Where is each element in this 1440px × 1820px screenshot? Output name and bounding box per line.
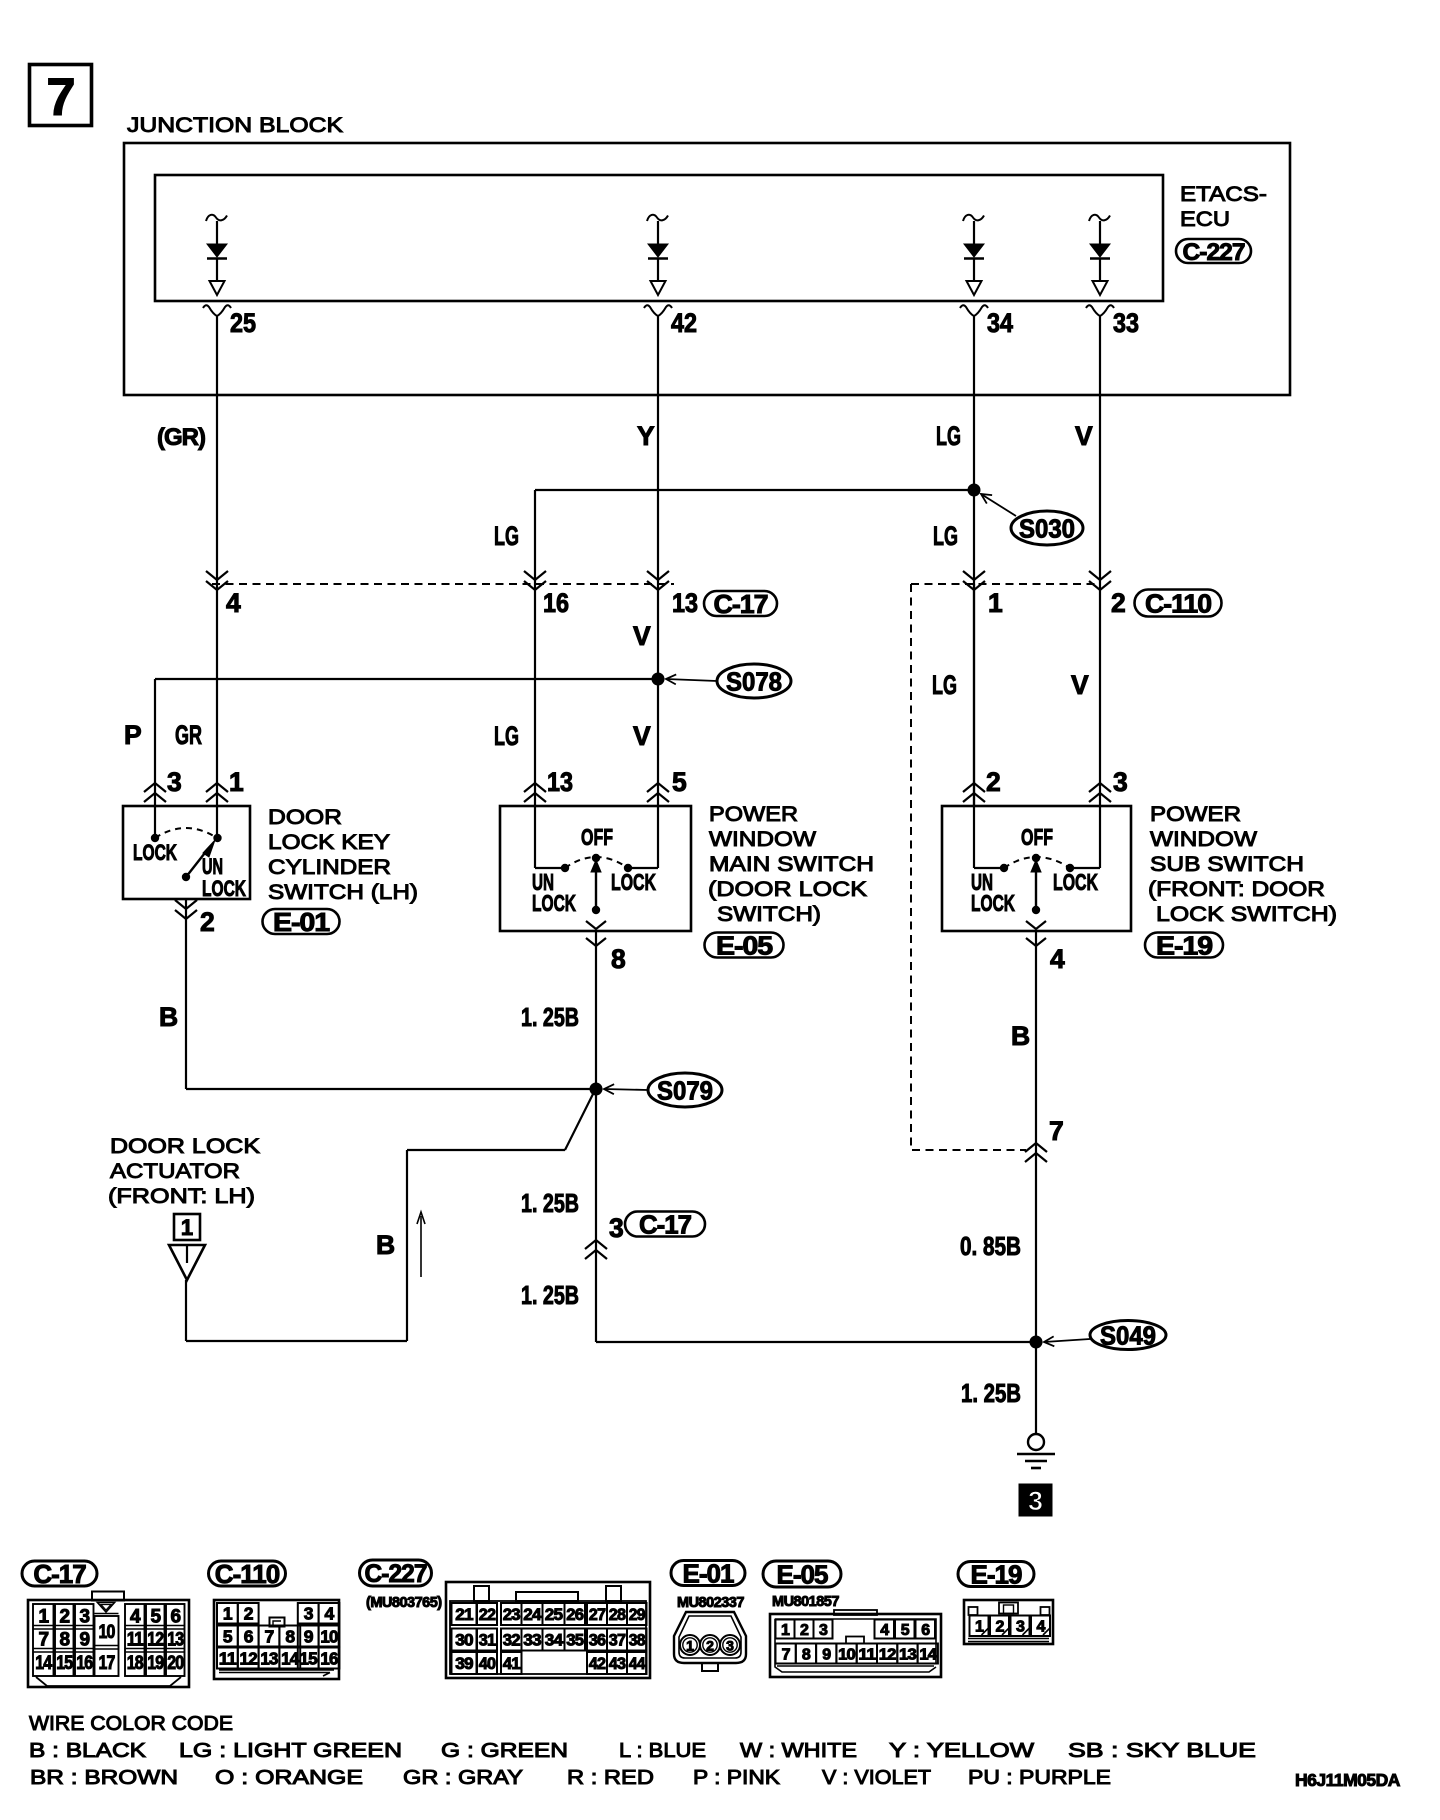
C-17 pin grid (33, 1604, 185, 1676)
svg-text:LOCK: LOCK (1053, 869, 1098, 895)
svg-text:10: 10 (838, 1646, 856, 1663)
connector view E-01 (674, 1612, 746, 1671)
pin 33 ETACS-ECU (1086, 305, 1139, 338)
pin 8 switch E-05 (586, 921, 625, 974)
svg-text:21: 21 (455, 1605, 473, 1624)
svg-text:9: 9 (822, 1646, 831, 1663)
wire GR pin25 to switch E-01 pin1 (216, 316, 218, 806)
wire color code heading (29, 1712, 233, 1735)
svg-text:H6J11M05DA: H6J11M05DA (1295, 1770, 1401, 1790)
wire label 1.25B mid (521, 1190, 579, 1218)
connector label C-17 lower (625, 1209, 705, 1239)
key cyl label LOCK (133, 840, 177, 865)
connector label C-227 (1176, 239, 1251, 266)
sub sw contact UNLOCK (1000, 864, 1008, 872)
svg-text:LOCK SWITCH): LOCK SWITCH) (1156, 902, 1337, 926)
connector view label C-227 (360, 1560, 432, 1588)
ETACS-ECU box (155, 175, 1163, 301)
svg-text:1: 1 (38, 1607, 49, 1628)
connector view label E-01 (671, 1558, 745, 1588)
C-110 pin grid (217, 1603, 339, 1669)
svg-text:7: 7 (1049, 1116, 1063, 1146)
wire label LG above E-05 (494, 721, 519, 751)
svg-text:B: B (159, 1002, 177, 1032)
svg-text:GR : GRAY: GR : GRAY (403, 1766, 523, 1789)
wire label LG left branch (494, 521, 519, 551)
svg-text:34: 34 (987, 308, 1013, 338)
svg-text:33: 33 (523, 1631, 541, 1650)
svg-text:4: 4 (325, 1604, 335, 1624)
svg-text:WINDOW: WINDOW (1150, 827, 1258, 851)
node S030 junction (535, 484, 981, 497)
svg-text:3: 3 (819, 1622, 828, 1639)
wire label B actuator (376, 1230, 394, 1260)
svg-text:4: 4 (226, 588, 241, 618)
power window main switch box (500, 806, 691, 931)
svg-text:V: V (633, 621, 651, 651)
pin 5 switch (647, 767, 687, 802)
svg-text:2: 2 (986, 767, 1001, 797)
pin 2 switch E-01 (175, 900, 214, 937)
svg-text:SUB SWITCH: SUB SWITCH (1150, 852, 1304, 876)
svg-text:LOCK: LOCK (611, 869, 656, 895)
diode D1 (206, 215, 227, 295)
actuator name DOOR LOCK ACTUATOR (FRONT: LH) (108, 1134, 261, 1208)
main sw contact LOCK (624, 864, 632, 872)
svg-text:LG: LG (494, 721, 519, 751)
sub sw label LOCK (1053, 869, 1098, 895)
wire label 0.85B (960, 1233, 1021, 1261)
svg-text:O : ORANGE: O : ORANGE (215, 1766, 363, 1789)
wire label V above S078 (633, 621, 651, 651)
harness boundary dashed line C-110 (911, 583, 1100, 585)
svg-text:7: 7 (265, 1626, 274, 1646)
svg-text:5: 5 (901, 1622, 910, 1639)
connector view label E-19 (958, 1559, 1034, 1589)
svg-text:8: 8 (285, 1626, 295, 1646)
pin 13 switch (524, 767, 573, 802)
svg-text:GR: GR (175, 720, 202, 750)
svg-text:32: 32 (503, 1631, 520, 1650)
sub sw wiper arrow (1031, 860, 1041, 914)
svg-text:LG: LG (932, 670, 957, 700)
sub sw label UN LOCK (971, 869, 1015, 916)
svg-text:B: B (1011, 1021, 1029, 1051)
main sw contact OFF (592, 854, 600, 862)
svg-text:C-227: C-227 (1183, 239, 1245, 266)
sub sw contact OFF (1032, 854, 1040, 862)
svg-text:C-227: C-227 (365, 1560, 427, 1588)
connector view label E-05 (763, 1559, 841, 1589)
svg-text:C-17: C-17 (714, 589, 769, 619)
connector view E-19 (964, 1600, 1053, 1644)
door lock actuator symbol (169, 1245, 205, 1280)
splice label S049 (1044, 1320, 1166, 1350)
connector label C-110 inline (1135, 588, 1222, 618)
svg-text:8: 8 (611, 944, 625, 974)
svg-text:(FRONT: DOOR: (FRONT: DOOR (1148, 877, 1325, 901)
svg-text:ETACS-: ETACS- (1180, 182, 1267, 206)
svg-text:14: 14 (281, 1648, 299, 1668)
svg-text:PU : PURPLE: PU : PURPLE (968, 1766, 1111, 1789)
svg-text:S049: S049 (1100, 1320, 1156, 1350)
wire LG C-110 to E-19 pin2 (973, 584, 975, 806)
main sw internal wire left (535, 807, 565, 868)
svg-text:36: 36 (589, 1631, 606, 1650)
splice label S079 (604, 1073, 722, 1107)
svg-text:12: 12 (147, 1630, 163, 1651)
svg-text:5: 5 (672, 767, 687, 797)
svg-text:33: 33 (1113, 308, 1139, 338)
svg-text:E-19: E-19 (1156, 930, 1213, 960)
svg-text:LOCK: LOCK (532, 890, 576, 916)
svg-text:34: 34 (545, 1631, 564, 1650)
wire V pin33 (1099, 316, 1101, 806)
svg-text:L : BLUE: L : BLUE (619, 1739, 706, 1762)
E-05 part number MU801857 (772, 1594, 839, 1610)
sub sw internal wire right (1070, 807, 1100, 868)
wire B E-19 pin4 down (1035, 931, 1037, 1342)
svg-text:1. 25B: 1. 25B (521, 1190, 579, 1218)
pin 13 connector C-17 (647, 571, 698, 618)
svg-text:13: 13 (167, 1630, 183, 1651)
wire label GR (175, 720, 202, 750)
svg-text:WIRE COLOR CODE: WIRE COLOR CODE (29, 1712, 233, 1735)
svg-text:6: 6 (921, 1622, 930, 1639)
svg-text:MAIN SWITCH: MAIN SWITCH (709, 852, 874, 876)
svg-text:C-17: C-17 (639, 1209, 692, 1239)
door boundary dashed outline (911, 584, 1026, 1150)
sub sw label OFF (1021, 824, 1053, 850)
svg-text:2: 2 (1111, 588, 1125, 618)
wire B E-01 pin2 down (185, 899, 187, 1089)
pin 4 switch E-19 (1026, 921, 1065, 974)
svg-text:40: 40 (479, 1654, 496, 1673)
wire Y pin42 (657, 316, 659, 679)
wire V S078 to switch E-05 pin5 (657, 679, 659, 806)
wire 1.25B E-05 pin8 to S079 (595, 931, 597, 1089)
svg-text:1: 1 (181, 1215, 193, 1240)
wire label LG above E-19 (932, 670, 957, 700)
key cyl contact UNLOCK (213, 834, 221, 842)
svg-text:14: 14 (919, 1646, 937, 1663)
svg-text:V: V (633, 721, 651, 751)
ETACS-ECU label (1180, 182, 1267, 231)
svg-text:B: B (376, 1230, 394, 1260)
main sw label LOCK (611, 869, 656, 895)
svg-text:4: 4 (1050, 944, 1065, 974)
connector label C-17 inline (704, 589, 777, 619)
svg-text:3: 3 (1028, 1486, 1043, 1516)
svg-text:1: 1 (781, 1622, 790, 1639)
diode D3 (963, 215, 984, 295)
pin 7 door boundary (1025, 1116, 1063, 1162)
svg-text:11: 11 (127, 1630, 144, 1651)
svg-text:3: 3 (79, 1607, 89, 1628)
svg-text:17: 17 (99, 1653, 115, 1674)
svg-text:LOCK KEY: LOCK KEY (268, 830, 390, 854)
wire label LG below S030 (933, 521, 958, 551)
pin 2 switch (963, 767, 1001, 802)
node S079 junction (186, 1083, 603, 1096)
svg-text:S078: S078 (726, 666, 782, 696)
drawing number H6J11M05DA (1295, 1770, 1401, 1790)
switch name POWER WINDOW MAIN SWITCH (708, 802, 874, 926)
svg-text:2: 2 (200, 907, 214, 937)
sub sw internal wire left (974, 807, 1004, 868)
svg-text:7: 7 (46, 68, 74, 127)
svg-text:6: 6 (244, 1626, 254, 1646)
E-19 pin grid (970, 1616, 1051, 1637)
pin 3 switch (144, 767, 182, 802)
svg-text:R : RED: R : RED (567, 1766, 654, 1789)
svg-text:WINDOW: WINDOW (709, 827, 817, 851)
svg-text:10: 10 (99, 1622, 115, 1643)
main sw label UN LOCK (532, 869, 576, 916)
svg-text:LOCK: LOCK (133, 840, 177, 865)
connector view label C-110 (209, 1559, 286, 1589)
svg-text:(MU803765): (MU803765) (366, 1595, 442, 1611)
svg-text:11: 11 (219, 1648, 237, 1668)
svg-text:OFF: OFF (581, 824, 613, 850)
svg-text:28: 28 (609, 1605, 626, 1624)
harness boundary dashed line C-17 (212, 583, 674, 585)
key cyl wiper arc (155, 828, 217, 838)
svg-text:V: V (1075, 421, 1093, 451)
svg-text:24: 24 (523, 1605, 542, 1624)
sub sw contact LOCK (1066, 864, 1074, 872)
key cyl wiper lever (182, 840, 215, 881)
C-227 part number MU803765 (366, 1595, 442, 1611)
connector view C-227 (446, 1582, 650, 1678)
wire S079 to actuator (186, 1092, 594, 1341)
pin 34 ETACS-ECU (960, 305, 1013, 338)
svg-text:G : GREEN: G : GREEN (441, 1739, 568, 1762)
svg-text:E-05: E-05 (777, 1559, 828, 1589)
svg-text:9: 9 (304, 1626, 314, 1646)
svg-text:14: 14 (35, 1653, 52, 1674)
svg-text:3: 3 (609, 1213, 623, 1243)
svg-text:35: 35 (566, 1631, 583, 1650)
svg-text:V: V (1071, 670, 1089, 700)
connector view E-05 (770, 1610, 941, 1677)
main sw wiper arc (565, 857, 628, 868)
svg-text:1. 25B: 1. 25B (521, 1004, 579, 1032)
svg-text:2: 2 (59, 1607, 69, 1628)
diode D4 (1089, 215, 1110, 295)
svg-text:C-110: C-110 (215, 1559, 280, 1589)
svg-text:LOCK: LOCK (971, 890, 1015, 916)
pin 25 ETACS-ECU (203, 305, 256, 338)
diode D2 (647, 215, 668, 295)
svg-text:DOOR LOCK: DOOR LOCK (110, 1134, 261, 1158)
svg-text:13: 13 (547, 767, 573, 797)
svg-text:5: 5 (223, 1626, 233, 1646)
C-227 pin grid (452, 1603, 647, 1674)
svg-text:Y: Y (637, 421, 655, 451)
svg-text:1. 25B: 1. 25B (961, 1380, 1021, 1408)
svg-text:S030: S030 (1019, 513, 1075, 543)
svg-text:JUNCTION BLOCK: JUNCTION BLOCK (127, 113, 344, 137)
svg-text:13: 13 (899, 1646, 917, 1663)
svg-text:5: 5 (150, 1607, 161, 1628)
wire label V above E-05 (633, 721, 651, 751)
svg-text:CYLINDER: CYLINDER (268, 855, 391, 879)
svg-text:1: 1 (988, 588, 1002, 618)
switch name DOOR LOCK KEY CYLINDER SWITCH (LH) (268, 805, 418, 904)
svg-text:P: P (124, 720, 141, 750)
svg-text:39: 39 (455, 1654, 473, 1673)
svg-text:E-05: E-05 (716, 930, 773, 960)
svg-text:10: 10 (320, 1626, 338, 1646)
svg-text:23: 23 (503, 1605, 520, 1624)
svg-text:8: 8 (802, 1646, 811, 1663)
svg-text:20: 20 (167, 1653, 183, 1674)
pin 3 switch (1089, 767, 1128, 802)
svg-text:4: 4 (880, 1622, 889, 1639)
svg-text:7: 7 (782, 1646, 791, 1663)
wire label V (1075, 421, 1093, 451)
svg-text:25: 25 (545, 1605, 563, 1624)
svg-text:E-01: E-01 (273, 907, 330, 937)
svg-text:7: 7 (38, 1630, 48, 1651)
svg-text:8: 8 (59, 1630, 69, 1651)
svg-text:0. 85B: 0. 85B (960, 1233, 1021, 1261)
svg-text:11: 11 (858, 1646, 876, 1663)
splice label S078 (666, 664, 791, 698)
svg-text:MU801857: MU801857 (772, 1594, 839, 1610)
wire label B sub switch (1011, 1021, 1029, 1051)
ground (1017, 1434, 1055, 1468)
svg-text:9: 9 (79, 1630, 89, 1651)
svg-text:26: 26 (566, 1605, 583, 1624)
wire label B (159, 1002, 177, 1032)
pin 42 ETACS-ECU (644, 305, 697, 338)
wire label (GR) (157, 424, 205, 451)
svg-text:15: 15 (56, 1653, 73, 1674)
pin 3 connector C-17 lower (585, 1213, 623, 1259)
svg-text:E-19: E-19 (971, 1559, 1022, 1589)
svg-text:(GR): (GR) (157, 424, 205, 451)
wire label 1.25B lower (521, 1282, 579, 1310)
svg-text:19: 19 (147, 1653, 163, 1674)
E-05 pin grid (776, 1620, 938, 1664)
connector label E-01 (263, 907, 340, 937)
svg-text:POWER: POWER (709, 802, 798, 826)
svg-text:6: 6 (170, 1607, 180, 1628)
svg-text:3: 3 (167, 767, 182, 797)
svg-text:LOCK: LOCK (202, 876, 246, 901)
door lock key cylinder switch box (123, 806, 250, 899)
wire LG pin34 below S030 (973, 490, 975, 806)
wire label Y (637, 421, 655, 451)
svg-text:C-17: C-17 (33, 1559, 86, 1589)
svg-text:LG: LG (933, 521, 958, 551)
svg-text:13: 13 (672, 588, 698, 618)
svg-text:22: 22 (479, 1605, 496, 1624)
svg-text:18: 18 (127, 1653, 143, 1674)
svg-text:1: 1 (229, 767, 244, 797)
svg-text:42: 42 (589, 1654, 606, 1673)
junction block label (127, 113, 344, 137)
door lock actuator terminal 1 (174, 1214, 200, 1240)
sheet index box 7 (30, 65, 92, 128)
svg-text:42: 42 (671, 308, 697, 338)
svg-text:DOOR: DOOR (268, 805, 342, 829)
svg-text:P : PINK: P : PINK (693, 1766, 780, 1789)
svg-text:15: 15 (300, 1648, 318, 1668)
svg-text:37: 37 (609, 1631, 626, 1650)
svg-text:2: 2 (706, 1638, 714, 1654)
svg-text:4: 4 (130, 1607, 141, 1628)
pin 1 connector C-110 (963, 571, 1002, 618)
svg-text:43: 43 (609, 1654, 626, 1673)
wire color code row 1 (29, 1739, 1256, 1762)
svg-text:V : VIOLET: V : VIOLET (822, 1766, 932, 1789)
svg-text:12: 12 (879, 1646, 897, 1663)
key cyl contact LOCK (151, 834, 159, 842)
svg-text:1: 1 (686, 1638, 694, 1654)
wire color code row 2 (30, 1766, 1111, 1789)
svg-text:ECU: ECU (1180, 207, 1230, 231)
svg-text:25: 25 (230, 308, 256, 338)
connector view C-110 (214, 1600, 339, 1679)
wire P branch to pin3 (154, 679, 156, 806)
wire label V above E-19 (1071, 670, 1089, 700)
svg-text:POWER: POWER (1150, 802, 1241, 826)
switch name POWER WINDOW SUB SWITCH (1148, 802, 1337, 926)
pin 4 connector C-17 (206, 571, 241, 618)
svg-text:3: 3 (726, 1638, 734, 1654)
ground reference box 3 (1019, 1484, 1052, 1516)
svg-text:E-01: E-01 (683, 1558, 734, 1588)
wire 1.25B S079 down (595, 1089, 597, 1342)
svg-text:MU802337: MU802337 (677, 1595, 744, 1611)
svg-text:Y : YELLOW: Y : YELLOW (889, 1739, 1035, 1762)
wire label P (124, 720, 141, 750)
wire 1.25B S049 to ground (1035, 1342, 1037, 1434)
svg-text:30: 30 (455, 1631, 473, 1650)
connector label E-19 (1145, 930, 1223, 960)
wire LG pin34 to node S030 (973, 316, 975, 490)
svg-text:SWITCH (LH): SWITCH (LH) (268, 880, 418, 904)
svg-text:2: 2 (800, 1622, 809, 1639)
svg-text:W : WHITE: W : WHITE (740, 1739, 857, 1762)
power window sub switch box (942, 806, 1131, 931)
svg-text:16: 16 (543, 588, 569, 618)
key cyl label UN LOCK (202, 854, 246, 901)
key cyl internal wire right (216, 807, 218, 834)
connector view label C-17 (22, 1559, 97, 1589)
svg-text:BR : BROWN: BR : BROWN (30, 1766, 178, 1789)
svg-text:27: 27 (589, 1605, 606, 1624)
svg-text:2: 2 (244, 1604, 254, 1624)
E-01 part number MU802337 (677, 1595, 744, 1611)
node S049 junction (596, 1336, 1043, 1349)
wire label LG (936, 421, 961, 451)
svg-text:ACTUATOR: ACTUATOR (110, 1159, 240, 1183)
pin 2 connector C-110 (1089, 571, 1125, 618)
svg-text:LG : LIGHT GREEN: LG : LIGHT GREEN (179, 1739, 402, 1762)
svg-text:S079: S079 (657, 1075, 713, 1105)
svg-text:16: 16 (320, 1648, 338, 1668)
svg-text:44: 44 (629, 1654, 646, 1673)
main sw wiper arrow (591, 860, 601, 914)
wire label 1.25B (521, 1004, 579, 1032)
key cyl internal wire left (154, 807, 156, 834)
wire LG branch S030 down (534, 490, 536, 806)
svg-text:29: 29 (629, 1605, 645, 1624)
